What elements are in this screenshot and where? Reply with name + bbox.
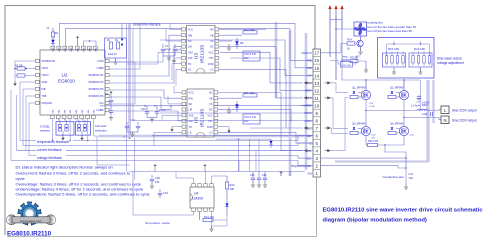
ground RV2 xyxy=(420,67,422,70)
wire gray bottom return xyxy=(7,177,317,236)
wire vdd feed xyxy=(110,56,164,62)
wire rail jumper xyxy=(330,19,342,21)
svg-text:bennypass.com: bennypass.com xyxy=(20,219,42,223)
svg-text:C22: C22 xyxy=(262,174,267,177)
op-amp U4 LM393 body xyxy=(190,187,214,208)
capacitor C19 xyxy=(159,189,161,192)
wire riser D xyxy=(281,93,303,151)
resistor jumper x=66.5 xyxy=(65,125,68,132)
diode D5 1N4007 U3 xyxy=(235,41,239,45)
diode D12 xyxy=(269,141,272,144)
ground RV1 xyxy=(393,67,395,70)
wire thick pale vertical x=306 xyxy=(305,33,308,170)
svg-text:N: N xyxy=(443,118,446,123)
svg-text:Sine 220V output: Sine 220V output xyxy=(452,119,477,123)
transistor Q4 IRF840 xyxy=(399,126,408,135)
ground soft start a xyxy=(62,131,64,136)
svg-text:HO: HO xyxy=(209,92,213,95)
wire U3 HO out xyxy=(219,29,266,31)
svg-text:L1 4mH: L1 4mH xyxy=(411,105,420,108)
wire riser x249 xyxy=(249,139,251,171)
power red arrow x=342 xyxy=(340,5,343,9)
wire SPWMOUT1 to U3 xyxy=(110,35,182,76)
svg-text:voltage feedback: voltage feedback xyxy=(37,156,62,160)
svg-text:current feedback: current feedback xyxy=(37,148,62,152)
svg-text:HO: HO xyxy=(210,29,214,32)
svg-text:15: 15 xyxy=(314,66,319,71)
svg-text:VB: VB xyxy=(210,34,214,37)
wire Vss right xyxy=(110,62,136,104)
svg-text:R1: R1 xyxy=(55,31,59,35)
svg-text:VCC: VCC xyxy=(188,29,193,32)
EG8010 right pins xyxy=(105,59,109,62)
capacitor C9 4.7uF xyxy=(110,96,112,99)
power +5V top pin5 xyxy=(76,36,79,41)
wire U3 LO out xyxy=(219,68,286,70)
LED D1 status indicator xyxy=(51,40,55,44)
ground U4 xyxy=(211,226,213,228)
svg-text:LM393: LM393 xyxy=(193,197,203,201)
svg-text:VVdd: VVdd xyxy=(97,59,104,63)
wire thick pale vertical x=276 xyxy=(275,22,278,98)
wire SPWMOUT3 to U5 xyxy=(110,90,183,98)
svg-text:5VPW: 5VPW xyxy=(304,112,312,115)
wire bottom bus xyxy=(366,136,404,145)
connector soft start selection box right xyxy=(76,122,91,135)
svg-text:R22 0.1R: R22 0.1R xyxy=(368,140,378,143)
svg-text:VDD: VDD xyxy=(71,47,73,52)
svg-text:R15 0R: R15 0R xyxy=(350,57,358,60)
svg-text:4.7uF: 4.7uF xyxy=(369,106,375,108)
svg-text:Vss: Vss xyxy=(99,101,104,105)
wire sense run right xyxy=(321,157,407,159)
wire right column xyxy=(420,80,422,111)
svg-text:R10 10R: R10 10R xyxy=(244,28,254,32)
wire U4 bottom xyxy=(133,172,194,216)
wire left pins down xyxy=(20,82,36,141)
svg-text:C10: C10 xyxy=(141,107,146,111)
svg-text:NTC 10K: NTC 10K xyxy=(342,65,352,67)
svg-text:13: 13 xyxy=(314,81,319,86)
wire riser E xyxy=(290,110,292,121)
svg-text:Dead time interface: Dead time interface xyxy=(133,23,161,27)
svg-text:C18: C18 xyxy=(155,176,160,180)
resistor jumper x=79 xyxy=(77,125,80,132)
svg-text:U5: U5 xyxy=(194,117,200,123)
svg-text:VCC: VCC xyxy=(208,51,213,54)
wire U5 HO out xyxy=(218,92,281,94)
svg-text:LIN: LIN xyxy=(188,46,192,49)
wire thick pale right loop y=162 xyxy=(335,80,428,162)
svg-text:C7: C7 xyxy=(165,44,169,48)
ground fan xyxy=(360,47,362,50)
wire to pin8 xyxy=(133,120,313,122)
wire LCBD right xyxy=(110,23,141,69)
transistor Q2 IRF840 xyxy=(399,90,408,99)
power red arrow x=336 xyxy=(334,5,337,9)
svg-text:SPWMOUT2: SPWMOUT2 xyxy=(89,80,105,84)
wire pale drop xyxy=(289,172,291,177)
wire to pin12 xyxy=(230,58,313,90)
diode D6 1N4007 U5 xyxy=(235,104,239,108)
node sine adjust outer box xyxy=(378,38,435,79)
svg-text:C20: C20 xyxy=(250,174,255,177)
svg-text:R2 10K: R2 10K xyxy=(15,65,23,68)
svg-text:COM: COM xyxy=(208,63,214,66)
svg-text:17: 17 xyxy=(314,51,319,56)
node current feedback label xyxy=(36,147,66,152)
svg-text:VB: VB xyxy=(209,97,213,100)
svg-text:VDD: VDD xyxy=(78,47,80,52)
svg-text:VDD: VDD xyxy=(84,47,86,52)
svg-text:VDD: VDD xyxy=(96,47,98,52)
power rail a xyxy=(329,9,331,58)
resistor R3 left xyxy=(17,74,25,77)
diode D9 gate xyxy=(353,127,355,129)
svg-text:HIN: HIN xyxy=(189,97,193,100)
wire riser x238 xyxy=(237,139,239,171)
svg-text:LO: LO xyxy=(210,69,213,72)
wire drain drops xyxy=(365,80,367,90)
svg-text:Q2_IRF840: Q2_IRF840 xyxy=(390,86,404,90)
wire to pin14 xyxy=(160,40,313,75)
svg-text:1uF: 1uF xyxy=(177,48,182,52)
wire U5 VS out xyxy=(218,109,291,111)
svg-text:25V: 25V xyxy=(244,119,249,123)
EG8010 left pins xyxy=(36,59,40,62)
wire to pin16 xyxy=(290,29,313,61)
svg-text:TST: TST xyxy=(209,57,214,60)
resistor R16 gate xyxy=(350,95,358,98)
node dead time pads xyxy=(121,38,123,40)
svg-text:VVREF: VVREF xyxy=(303,105,312,108)
svg-text:14: 14 xyxy=(314,73,319,78)
ground R15 xyxy=(365,61,367,68)
resistor jumper x=60 xyxy=(58,125,61,132)
EG8010 top pins xyxy=(51,46,55,49)
svg-text:+5V: +5V xyxy=(307,75,312,78)
capacitor row C21 xyxy=(258,172,260,178)
svg-text:EG8010: EG8010 xyxy=(58,79,75,84)
svg-text:Sine wave output: Sine wave output xyxy=(437,57,462,61)
svg-text:4.7uF: 4.7uF xyxy=(159,108,166,112)
svg-text:Sine 220V output: Sine 220V output xyxy=(452,109,477,113)
svg-text:EG8010.IR2110: EG8010.IR2110 xyxy=(7,231,52,238)
svg-text:OSC1: OSC1 xyxy=(42,66,50,70)
power rail c xyxy=(341,9,343,30)
wire fanctr from pin17 xyxy=(321,44,348,53)
svg-text:C9: C9 xyxy=(105,92,109,96)
wire VVdd right xyxy=(110,61,136,63)
svg-text:NC: NC xyxy=(210,46,214,49)
wire U3 VS out xyxy=(219,46,276,48)
capacitor C13 104 xyxy=(137,122,139,125)
wire bus y=105.8 xyxy=(100,105,313,107)
wire to pin15 xyxy=(295,23,313,68)
connector J1 17 pin strip xyxy=(313,49,321,177)
svg-text:C17: C17 xyxy=(409,172,414,176)
svg-text:LD: LD xyxy=(188,69,191,72)
svg-text:TD: TD xyxy=(188,63,191,66)
svg-text:NC: NC xyxy=(209,109,213,112)
svg-text:R11 10R: R11 10R xyxy=(244,91,254,95)
U3 left pins xyxy=(182,28,186,31)
wire lm bus top xyxy=(130,171,306,173)
node junction v3 xyxy=(129,137,131,139)
svg-text:VCC: VCC xyxy=(189,92,194,95)
resistor R1 xyxy=(52,28,54,32)
capacitor row C22 xyxy=(264,172,266,178)
capacitor C9b 104 xyxy=(110,106,112,110)
op-amp U5 IR2110S driver body xyxy=(187,89,214,137)
wire N out xyxy=(428,118,441,120)
ground caps low xyxy=(127,131,138,133)
svg-text:SD: SD xyxy=(189,103,193,106)
resistor R22 shunt xyxy=(368,143,378,146)
wire to pin7 xyxy=(286,69,303,128)
power +5V lm1 xyxy=(153,164,156,169)
svg-text:104: 104 xyxy=(155,180,160,184)
U3 right pins xyxy=(215,28,219,31)
wire pin1 left loop xyxy=(15,61,36,68)
wire SPWMOUT2 to U3 xyxy=(110,47,182,83)
capacitor C10 104 xyxy=(146,106,148,111)
svg-text:Q4_IRF840: Q4_IRF840 xyxy=(390,122,404,126)
svg-text:TD: TD xyxy=(189,126,192,129)
svg-text:R14: R14 xyxy=(347,38,352,42)
wire LGBD long xyxy=(110,111,183,121)
power red arrow x=330 xyxy=(328,5,331,9)
wire U5 left feeds xyxy=(174,86,182,93)
ground C17 xyxy=(404,185,408,190)
svg-text:U2: U2 xyxy=(62,73,68,78)
ground left arrow xyxy=(14,76,16,82)
resistor Rx dead time 1 xyxy=(109,42,112,49)
wire y139 xyxy=(216,138,271,140)
wire to pin10 xyxy=(300,105,313,107)
svg-text:cycle: cycle xyxy=(16,176,26,181)
power +5V lm2 xyxy=(203,164,206,169)
resistor R19 gate xyxy=(388,131,396,134)
svg-text:IR2110S: IR2110S xyxy=(200,109,206,127)
resistor R14 fan base xyxy=(347,42,355,45)
svg-text:VDD: VDD xyxy=(90,47,92,52)
svg-text:VDD: VDD xyxy=(53,47,55,52)
wire dead time drop xyxy=(121,23,123,39)
svg-text:VREF: VREF xyxy=(305,90,312,93)
svg-text:Conductive wire: Conductive wire xyxy=(383,175,405,179)
fan M1 cooling fan box xyxy=(354,22,367,36)
svg-text:VSS: VSS xyxy=(188,51,193,54)
wire thick pale vertical x=290 xyxy=(289,30,292,176)
wire mesh v3 xyxy=(134,138,136,180)
wire feedback left risers xyxy=(16,95,18,151)
connector T2 N terminal xyxy=(441,116,449,124)
svg-text:C12: C12 xyxy=(130,118,135,122)
wire mid node right bridge xyxy=(403,100,405,127)
wire U5 COM ground xyxy=(218,127,229,128)
wire U5 LO out xyxy=(218,131,296,133)
resistor R11 bootstrap U5 xyxy=(218,97,242,99)
capacitor C8 104 xyxy=(174,44,176,48)
connector T1 L terminal xyxy=(441,106,449,114)
U5 right pins xyxy=(214,91,218,94)
wire mid node left bridge xyxy=(365,100,367,127)
svg-text:SPWMOUT4: SPWMOUT4 xyxy=(89,94,105,98)
power rail b xyxy=(335,9,337,81)
svg-text:EG8010.IR2110 sine wave invert: EG8010.IR2110 sine wave inverter drive c… xyxy=(323,207,484,213)
svg-text:12: 12 xyxy=(314,88,319,93)
svg-text:U4: U4 xyxy=(194,192,198,196)
transistor Q3 IRF840 xyxy=(361,126,370,135)
wire to pin7 left stub xyxy=(250,127,286,129)
EG8010 bottom pins xyxy=(50,115,54,118)
wire riser F xyxy=(296,132,313,143)
svg-text:soft start: soft start xyxy=(95,124,107,128)
U5 left pins xyxy=(182,91,186,94)
resistor R18 gate xyxy=(350,131,358,134)
svg-text:SPWMOUT3: SPWMOUT3 xyxy=(89,87,105,91)
svg-text:HIN2: HIN2 xyxy=(306,135,312,138)
wire lm right riser xyxy=(238,161,240,172)
capacitor C16 4.7uF U5 xyxy=(243,114,260,124)
resistor R21 xyxy=(199,211,201,220)
ground soft start b xyxy=(81,131,83,136)
wire riser x259 xyxy=(258,139,260,171)
svg-text:diagram (bipolar modulation me: diagram (bipolar modulation method) xyxy=(323,218,427,224)
wire adj tops xyxy=(387,44,430,56)
wire top bus A xyxy=(60,23,296,46)
capacitor snubber q2 xyxy=(418,95,420,97)
transistor Q1 IRF840 xyxy=(361,90,370,99)
svg-text:103: 103 xyxy=(409,176,414,180)
wire conductive node xyxy=(405,152,407,185)
diode D8 gate xyxy=(391,91,393,93)
op-amp U3 IR2110S driver body xyxy=(187,25,216,73)
wire U3 VB xyxy=(219,40,232,42)
svg-text:11: 11 xyxy=(314,96,319,101)
svg-text:VCC: VCC xyxy=(207,114,212,117)
svg-text:16: 16 xyxy=(314,58,319,63)
wire HV top bus xyxy=(342,29,420,80)
wire top bus B xyxy=(66,29,291,46)
svg-text:RV2 10K: RV2 10K xyxy=(414,47,425,51)
svg-text:Overtemperature: flashes 5 tim: Overtemperature: flashes 5 times, off fo… xyxy=(16,192,151,197)
svg-text:FANCTR: FANCTR xyxy=(302,52,312,55)
svg-text:C16 4.7uF: C16 4.7uF xyxy=(244,115,257,119)
ground dead time xyxy=(115,58,117,61)
svg-text:TFB: TFB xyxy=(307,60,312,63)
ground U5 right xyxy=(228,107,230,109)
svg-text:D1 status indicator light desc: D1 status indicator light description:No… xyxy=(16,164,113,169)
svg-text:CLK: CLK xyxy=(188,57,193,60)
svg-text:turn off the fan when less tha: turn off the fan when less than 45 xyxy=(368,29,413,33)
wire U3 left feeds xyxy=(170,23,182,29)
capacitor C7 47uF xyxy=(162,44,164,48)
transistor Q5 fan driver xyxy=(357,40,363,46)
wire thick pale horizontal y=136 xyxy=(98,135,310,138)
resistor R2 left xyxy=(17,67,25,70)
svg-text:VDD: VDD xyxy=(59,47,61,52)
resistor R10 bootstrap U3 xyxy=(219,34,242,36)
wire SPWMOUT4 to U5 xyxy=(110,97,172,110)
svg-text:SYSSEL: SYSSEL xyxy=(40,125,51,129)
wire thick pale vertical x=129.5 xyxy=(128,23,131,138)
wire mesh v2 xyxy=(132,29,134,121)
wire bottom pins feedback xyxy=(52,119,54,141)
svg-text:LCBD: LCBD xyxy=(97,66,104,70)
svg-text:LO: LO xyxy=(209,132,212,135)
resistor Rx dead time 2 xyxy=(116,42,119,49)
capacitor C11 4.7uF xyxy=(156,106,158,111)
svg-text:FRQADJ: FRQADJ xyxy=(42,101,53,105)
wire feedback bus lines xyxy=(20,136,313,141)
wire gates to bridge xyxy=(331,83,349,93)
svg-text:voltage adjustment: voltage adjustment xyxy=(437,61,464,65)
svg-text:LD: LD xyxy=(189,132,192,135)
inductor L1 xyxy=(417,109,427,110)
svg-text:U3: U3 xyxy=(194,53,200,59)
svg-text:Not posted - spare: Not posted - spare xyxy=(145,221,170,225)
ground U3 right xyxy=(228,44,230,46)
svg-text:R20: R20 xyxy=(230,183,235,187)
wire to pin6 xyxy=(152,135,313,137)
svg-text:630V: 630V xyxy=(422,105,428,107)
wire to pin9 xyxy=(160,112,313,114)
wire L out xyxy=(427,109,441,112)
svg-text:SPWMCTR: SPWMCTR xyxy=(42,59,56,63)
svg-text:GND: GND xyxy=(42,80,48,84)
svg-text:Q1_IRF840: Q1_IRF840 xyxy=(352,86,366,90)
svg-text:GND2: GND2 xyxy=(305,120,313,123)
wire thick pale output vertical x=428.5 xyxy=(427,80,429,162)
svg-text:VS: VS xyxy=(209,103,213,106)
ground C9b xyxy=(109,115,113,120)
diode D11 xyxy=(225,203,228,206)
wire bottom pins to box xyxy=(58,119,60,125)
capacitor C15 4.7uF U3 xyxy=(243,51,260,61)
resistor R20 xyxy=(226,176,228,182)
wire mesh v1 xyxy=(126,23,128,171)
wire to pin11 xyxy=(276,47,303,98)
svg-text:10K: 10K xyxy=(230,187,235,191)
capacitor row C20 xyxy=(252,172,254,178)
svg-text:LGBD: LGBD xyxy=(96,108,103,112)
svg-text:VIN: VIN xyxy=(307,172,311,175)
potentiometer group RV1 xyxy=(383,53,406,67)
svg-text:SD: SD xyxy=(188,40,192,43)
svg-text:47uF: 47uF xyxy=(165,48,171,52)
capacitor C12 104 xyxy=(126,122,128,125)
wire fan to rail xyxy=(336,28,354,30)
wire sense run right2 xyxy=(321,166,407,168)
wire temp sensor xyxy=(353,56,361,64)
svg-text:COM: COM xyxy=(207,126,213,129)
diode D7 gate xyxy=(353,91,355,93)
svg-text:Q3_IRF840: Q3_IRF840 xyxy=(352,122,366,126)
svg-text:SPWMOUT1: SPWMOUT1 xyxy=(89,73,105,77)
svg-text:VS: VS xyxy=(210,40,214,43)
svg-text:IR2110S: IR2110S xyxy=(200,45,206,63)
capacitor C18 104 xyxy=(151,175,153,178)
ground C10 C11 xyxy=(147,117,157,119)
svg-text:LIN: LIN xyxy=(189,109,193,112)
svg-text:C19: C19 xyxy=(163,191,168,195)
node voltage feedback label xyxy=(36,155,66,160)
svg-text:R21 10K: R21 10K xyxy=(204,215,214,219)
thermistor NTC box xyxy=(341,62,353,68)
connector JP dead time box xyxy=(105,38,127,58)
